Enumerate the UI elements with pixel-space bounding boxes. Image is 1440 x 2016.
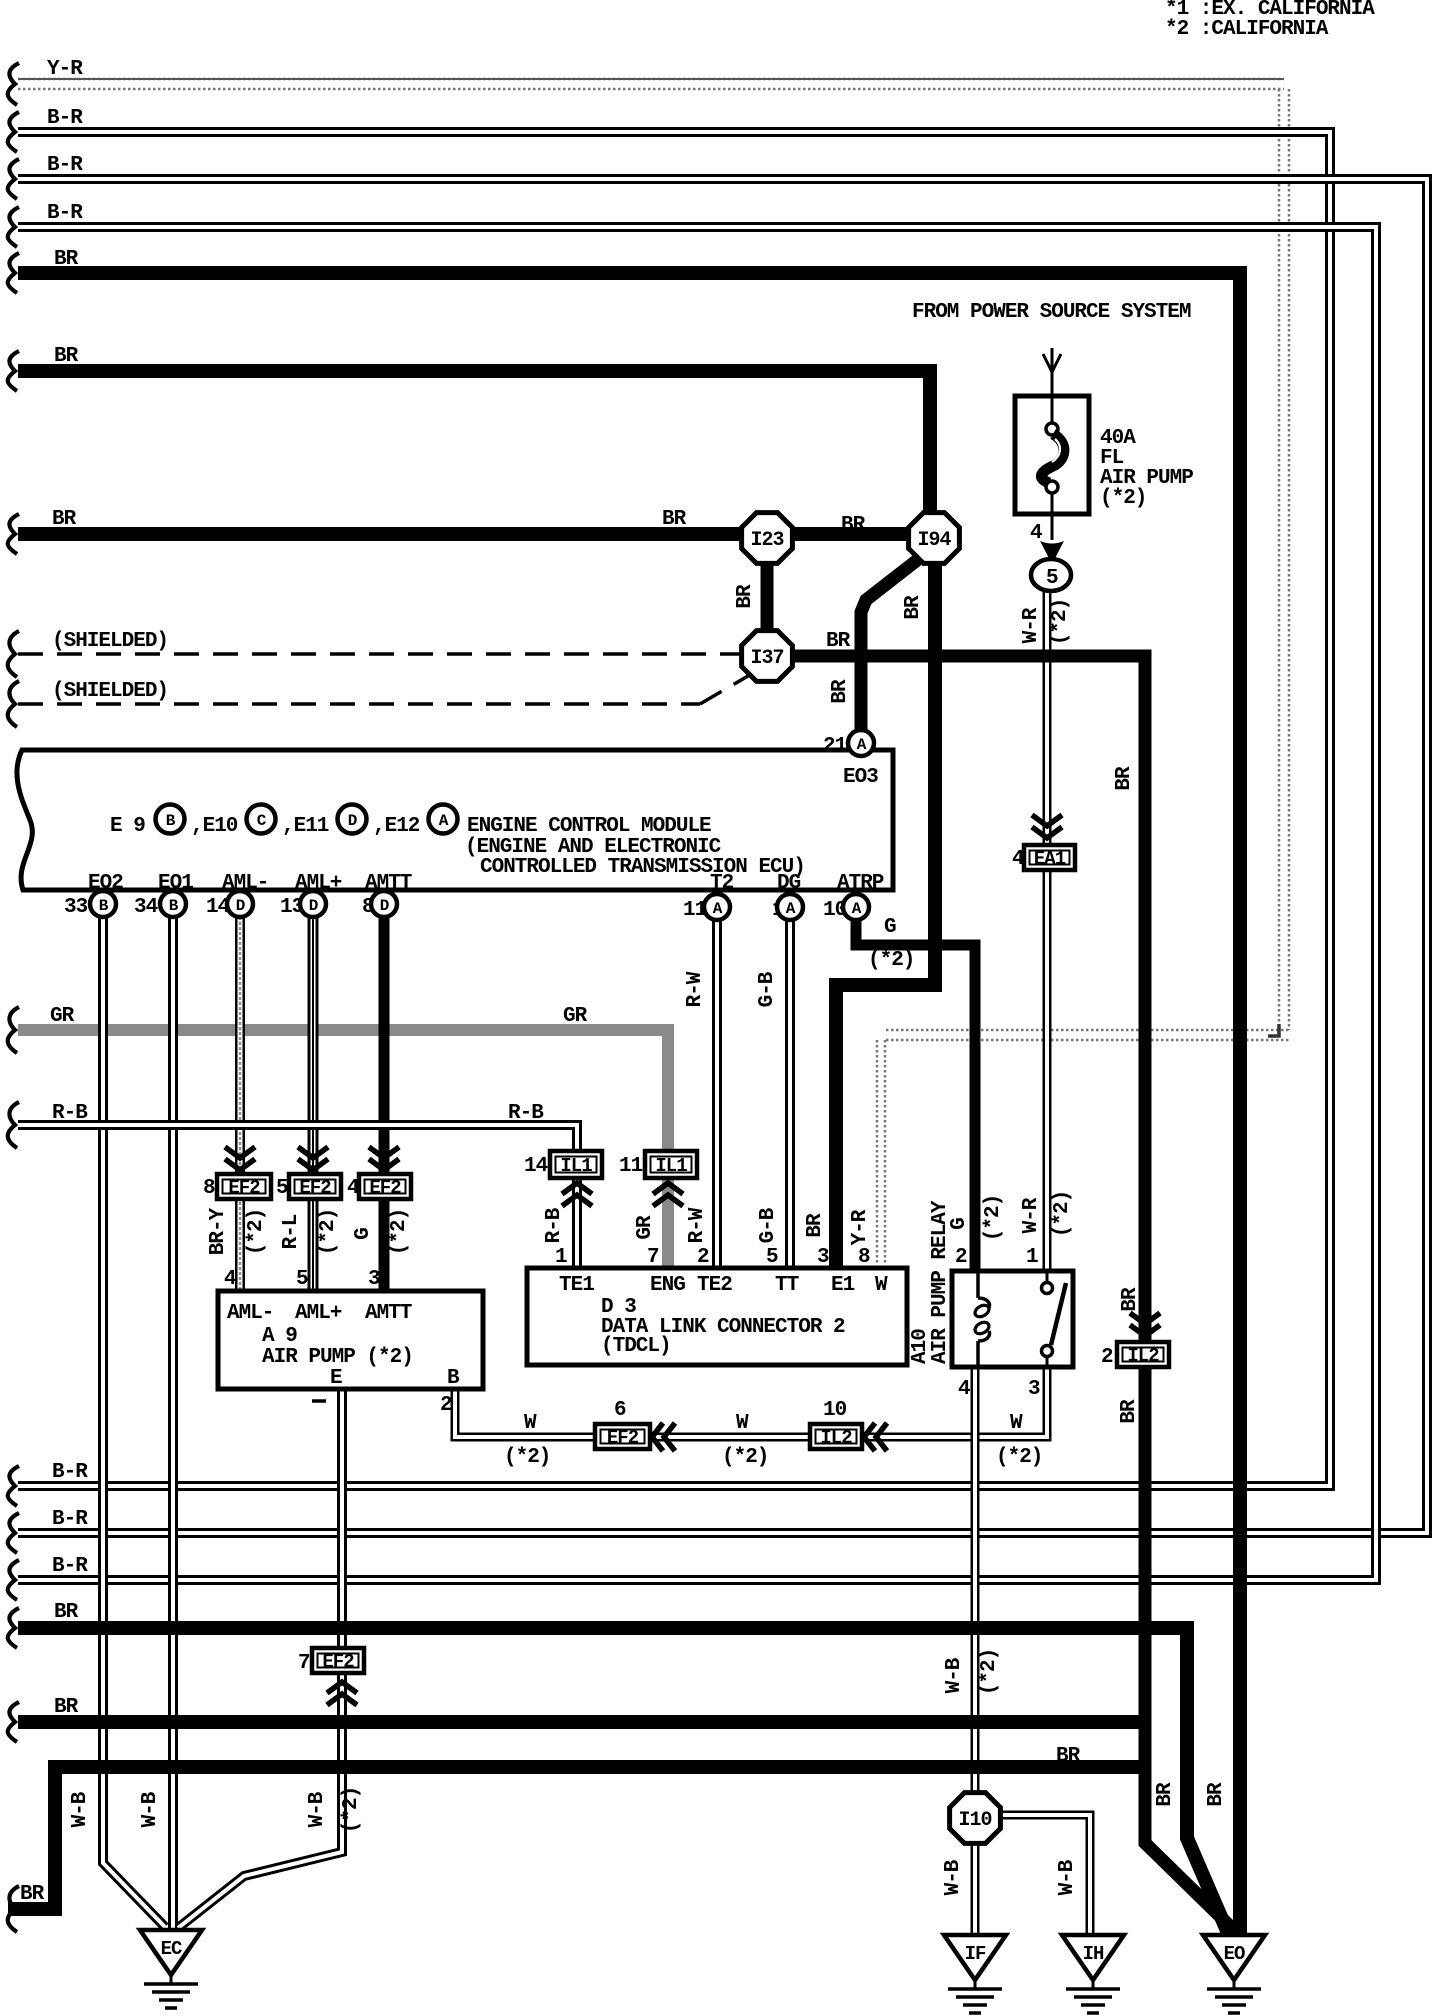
- svg-text:Y-R: Y-R: [849, 1209, 872, 1245]
- svg-text:(*2): (*2): [245, 1209, 268, 1255]
- svg-text:FROM POWER SOURCE SYSTEM: FROM POWER SOURCE SYSTEM: [912, 301, 1191, 324]
- svg-text:10: 10: [823, 1399, 847, 1422]
- svg-text:(SHIELDED): (SHIELDED): [52, 630, 168, 653]
- wire BR bottom-left L (y=1909) up to bus y=1767 joining IL2 vertical: [8, 1745, 1145, 1909]
- svg-text:(*2): (*2): [1100, 487, 1146, 510]
- svg-text:W-B: W-B: [942, 1859, 965, 1895]
- svg-text:R-B: R-B: [508, 1102, 544, 1125]
- svg-text:ATRP: ATRP: [837, 872, 884, 895]
- svg-text:6: 6: [614, 1399, 626, 1422]
- svg-text:*2 :CALIFORNIA: *2 :CALIFORNIA: [1165, 18, 1329, 41]
- ground EC: [140, 1930, 202, 2008]
- svg-text:EA1: EA1: [1034, 848, 1066, 870]
- svg-text:A: A: [852, 900, 862, 918]
- svg-text:B-R: B-R: [47, 107, 83, 130]
- svg-text:W-B: W-B: [943, 1657, 966, 1693]
- svg-text:BR: BR: [829, 679, 852, 704]
- svg-text:,E12: ,E12: [373, 815, 420, 838]
- svg-text:GR: GR: [50, 1005, 75, 1028]
- svg-text:3: 3: [1028, 1378, 1040, 1401]
- svg-text:B-R: B-R: [52, 1461, 88, 1484]
- svg-text:EO3: EO3: [843, 766, 878, 789]
- label FROM POWER SOURCE SYSTEM: [912, 301, 1191, 324]
- svg-text:(*2): (*2): [317, 1209, 340, 1255]
- wire BR from junction I94 straight down then jog left to D3 pin E1: [804, 545, 935, 1269]
- svg-text:IH: IH: [1083, 1943, 1104, 1965]
- wire B-R bus 3 (top y=227, right x=1376, bottom y=1580): [18, 202, 1376, 1580]
- svg-text:(*2): (*2): [982, 1195, 1005, 1241]
- svg-text:BR: BR: [1205, 1782, 1228, 1807]
- svg-text:Y-R: Y-R: [47, 58, 83, 81]
- ECU pin 13(D): [280, 891, 326, 919]
- svg-text:4: 4: [224, 1268, 236, 1291]
- svg-text:BR: BR: [1118, 1399, 1141, 1424]
- svg-text:ENG: ENG: [650, 1274, 685, 1297]
- wire Y-R bus (dotted, top row to D3 pin W): [18, 58, 1289, 1265]
- connector IL2 pin 10 with arrow: [810, 1399, 887, 1451]
- svg-text:(*2): (*2): [340, 1787, 363, 1833]
- svg-text:B: B: [447, 1367, 460, 1390]
- svg-text:R-B: R-B: [543, 1207, 566, 1243]
- D3 pin 8 Y-R label: [849, 1209, 872, 1269]
- svg-text:DG: DG: [777, 872, 801, 895]
- svg-text:R-W: R-W: [686, 1207, 709, 1243]
- ECU pin 8(D): [362, 891, 397, 919]
- svg-text:C: C: [257, 812, 267, 830]
- svg-text:D: D: [380, 897, 389, 915]
- svg-text:BR: BR: [1056, 1745, 1081, 1768]
- svg-text:,E10: ,E10: [191, 815, 238, 838]
- svg-text:IL1: IL1: [655, 1155, 687, 1177]
- svg-text:(*2): (*2): [996, 1446, 1042, 1469]
- svg-text:CONTROLLED TRANSMISSION ECU): CONTROLLED TRANSMISSION ECU): [480, 856, 805, 879]
- arrow from power source into fuse: [1043, 348, 1061, 398]
- wire W-B (*2) from air pump pin E down through EF2(7) to ground EC: [178, 1389, 363, 1928]
- fuse 40A FL AIR PUMP (*2): [1015, 396, 1193, 540]
- svg-text:D: D: [309, 897, 318, 915]
- wire W-B from junction I10 down to ground IF: [942, 1838, 975, 1935]
- svg-text:IF: IF: [965, 1943, 986, 1965]
- wire B-R bus 2 (top y=179, right x=1427, bottom y=1533): [18, 154, 1427, 1533]
- svg-text:BR: BR: [841, 514, 866, 537]
- svg-text:BR: BR: [662, 508, 687, 531]
- ECU pin 11(A): [683, 894, 730, 922]
- svg-text:BR: BR: [826, 630, 851, 653]
- arrow into EA1 pin 4: [1032, 815, 1062, 838]
- connector D3 DATA LINK CONNECTOR 2 (TDCL): [527, 1268, 907, 1365]
- svg-text:G-B: G-B: [757, 1207, 780, 1243]
- svg-text:BR: BR: [734, 584, 757, 609]
- svg-text:I23: I23: [750, 529, 783, 552]
- ECU pin 1(A): [772, 894, 803, 922]
- junction I23: [742, 513, 793, 564]
- svg-text:21: 21: [823, 735, 847, 758]
- svg-text:BR: BR: [20, 1883, 45, 1906]
- svg-text:BR: BR: [1154, 1782, 1177, 1807]
- junction I37: [742, 631, 793, 682]
- svg-text:GR: GR: [634, 1215, 657, 1240]
- svg-text:TE1: TE1: [559, 1274, 594, 1297]
- wire W-B from ECU pin 34(B) EO1 down to ground EC: [139, 917, 173, 1930]
- wire BR bus thick (y=371) down into junction I94: [18, 345, 930, 620]
- svg-text:A: A: [713, 900, 723, 918]
- connector 5 (oval): [1031, 559, 1071, 591]
- svg-text:B-R: B-R: [47, 202, 83, 225]
- svg-text:BR: BR: [54, 1696, 79, 1719]
- svg-text:(SHIELDED): (SHIELDED): [52, 680, 168, 703]
- svg-text:W-R: W-R: [1020, 1197, 1043, 1233]
- svg-text:(*2): (*2): [1049, 599, 1072, 645]
- svg-text:W: W: [1010, 1412, 1023, 1435]
- wire W (*2) chain from air pump pin B via EF2(6) and IL2(10) to relay pin 3: [440, 1367, 1047, 1469]
- junction I10: [950, 1793, 1001, 1844]
- svg-text:AIR PUMP RELAY: AIR PUMP RELAY: [929, 1200, 952, 1364]
- svg-text:D: D: [348, 812, 357, 830]
- svg-text:B-R: B-R: [52, 1508, 88, 1531]
- svg-text:EF2: EF2: [228, 1177, 260, 1199]
- svg-text:AIR PUMP (*2): AIR PUMP (*2): [262, 1346, 413, 1369]
- svg-text:5: 5: [296, 1268, 308, 1291]
- wire W-B (*2) from relay pin 4 down to junction I10: [943, 1367, 1001, 1800]
- svg-text:EF2: EF2: [607, 1427, 639, 1449]
- svg-text:14: 14: [524, 1155, 548, 1178]
- svg-text:W-B: W-B: [69, 1791, 92, 1827]
- connector IL1 pin 11: [619, 1151, 697, 1178]
- wire shielded line 2 (dashed, diagonal into I37): [18, 676, 748, 704]
- svg-text:E: E: [330, 1367, 342, 1390]
- wire W-B from junction I10 right and down to ground IH: [997, 1815, 1090, 1935]
- svg-text:I94: I94: [917, 529, 951, 552]
- svg-text:BR: BR: [1113, 766, 1136, 791]
- svg-text:3: 3: [368, 1268, 380, 1291]
- ECU pin 14(D): [206, 891, 253, 919]
- wire G (*2) from ECU pin 8(D) AMTT to connector EF2 pin 4 / air pump pin 3: [352, 917, 411, 1291]
- svg-text:BR: BR: [902, 595, 925, 620]
- svg-text:TE2: TE2: [697, 1274, 732, 1297]
- svg-text:(*2): (*2): [722, 1446, 768, 1469]
- svg-text:(*2): (*2): [1051, 1191, 1074, 1237]
- svg-text:W: W: [524, 1412, 537, 1435]
- svg-text:W: W: [875, 1274, 888, 1297]
- svg-text:BR: BR: [1119, 1287, 1142, 1312]
- D3 pin 7 GR label: [647, 1246, 659, 1269]
- svg-text:EF2: EF2: [299, 1177, 331, 1199]
- svg-text:EF2: EF2: [369, 1177, 401, 1199]
- svg-text:R-B: R-B: [52, 1102, 88, 1125]
- wire G (*2) thick from ECU pin 10(A) ATRP down to relay pin 2: [856, 916, 1005, 1271]
- wire G-B from ECU pin 1(A) DG down to D3 pin TT: [756, 917, 790, 1269]
- svg-text:2: 2: [1101, 1346, 1113, 1369]
- svg-text:(*2): (*2): [504, 1446, 550, 1469]
- wire R-W from ECU pin 11(A) T2 down to D3 pin TE2: [684, 917, 717, 1269]
- svg-text:B-R: B-R: [47, 154, 83, 177]
- legend *1 EX. CALIFORNIA / *2 CALIFORNIA: [1165, 0, 1375, 41]
- op-amp U1 ECU box ENGINE CONTROL MODULE: [17, 750, 893, 895]
- svg-text:BR: BR: [804, 1213, 827, 1238]
- connector EF2 pin 6 with arrow: [595, 1399, 675, 1451]
- svg-text:E 9: E 9: [110, 815, 145, 838]
- svg-text:7: 7: [298, 1652, 310, 1675]
- svg-text:BR: BR: [54, 345, 79, 368]
- svg-text:,E11: ,E11: [282, 815, 329, 838]
- svg-text:4: 4: [1030, 522, 1042, 545]
- ECU pin 34(B): [134, 891, 186, 919]
- svg-text:4: 4: [958, 1378, 970, 1401]
- svg-text:8: 8: [858, 1246, 870, 1269]
- svg-text:IL1: IL1: [560, 1155, 592, 1177]
- svg-text:EC: EC: [161, 1938, 182, 1960]
- wire B-R bus 1 (top y=132, right x=1330, bottom y=1486): [18, 107, 1330, 1486]
- wire GR (gray) from left bus down to connector IL1 pin 7: [18, 1005, 668, 1270]
- connector IL2 pin 2: [1101, 1342, 1169, 1369]
- svg-text:2: 2: [440, 1394, 452, 1417]
- svg-text:D: D: [236, 897, 245, 915]
- connector EA1 pin 4: [1012, 845, 1075, 871]
- svg-text:TT: TT: [775, 1274, 799, 1297]
- svg-text:R-W: R-W: [684, 971, 707, 1007]
- pin 4 and arrow into connector 5: [1030, 522, 1064, 564]
- svg-text:A: A: [439, 812, 449, 830]
- ECU pin 10(A): [823, 894, 869, 922]
- wire BR bottom bus thick (y=1722) joining IL2 vertical: [18, 1696, 1145, 1722]
- svg-text:IL2: IL2: [1127, 1345, 1159, 1367]
- connector EF2 pin 4: [347, 1174, 411, 1200]
- wire W-R (*2) from connector 5 down through EA1 to relay pin 1: [1020, 589, 1074, 1271]
- svg-text:IL2: IL2: [820, 1427, 852, 1449]
- wire shielded line 1 (dashed) into I37: [18, 630, 740, 654]
- relay pin 3 label: [1028, 1378, 1040, 1401]
- arrow into EF2 pin 5: [298, 1147, 328, 1170]
- svg-text:8: 8: [203, 1177, 215, 1200]
- svg-text:W-B: W-B: [306, 1791, 329, 1827]
- svg-text:I37: I37: [750, 647, 783, 670]
- ground IH: [1062, 1935, 1124, 2013]
- svg-text:ENGINE CONTROL MODULE: ENGINE CONTROL MODULE: [467, 815, 711, 838]
- svg-text:B: B: [169, 897, 179, 915]
- svg-text:A: A: [857, 736, 867, 754]
- svg-text:A 9: A 9: [262, 1325, 297, 1348]
- svg-text:(*2): (*2): [868, 949, 914, 972]
- ground EO: [1203, 1935, 1265, 2013]
- ground IF: [944, 1935, 1006, 2013]
- relay A10 AIR PUMP RELAY: [909, 1200, 1073, 1367]
- left continuation braces: [8, 63, 19, 1932]
- svg-text:34: 34: [134, 896, 158, 919]
- svg-text:T2: T2: [710, 872, 734, 895]
- svg-text:5: 5: [276, 1177, 288, 1200]
- ECU pin 33(B): [64, 891, 116, 919]
- connector EF2 pin 8: [203, 1174, 271, 1200]
- wire BR bus thick (y=273) down right side x=1240 to ground EO: [18, 248, 1240, 1935]
- wire BR bottom bus thick (y=1628) right then down to ground EO: [18, 1601, 1228, 1933]
- svg-text:BR: BR: [54, 1601, 79, 1624]
- svg-text:2: 2: [955, 1246, 967, 1269]
- svg-text:B: B: [99, 897, 109, 915]
- svg-text:W-R: W-R: [1020, 607, 1043, 643]
- svg-text:B: B: [166, 812, 176, 830]
- svg-text:W-B: W-B: [1056, 1859, 1079, 1895]
- svg-text:A: A: [786, 900, 796, 918]
- arrow into IL2 pin 2: [1130, 1313, 1160, 1336]
- wire BR-Y (*2) from ECU pin 14(D) AML- to connector EF2 pin 8 / air pump pin 4: [207, 917, 268, 1291]
- svg-text:AML-: AML-: [227, 1302, 273, 1325]
- svg-text:33: 33: [64, 896, 88, 919]
- svg-text:W: W: [736, 1412, 749, 1435]
- wire BR from junction I94 diagonal down to ECU pin 21(A): [829, 541, 934, 731]
- connector EF2 pin 5: [276, 1174, 341, 1200]
- wire BR bus thick (y=534) through junction I23 to junction I94: [18, 508, 934, 537]
- svg-text:1: 1: [1026, 1246, 1038, 1269]
- wire R-L (*2) from ECU pin 13(D) AML+ to connector EF2 pin 5 / air pump pin 5: [280, 917, 340, 1291]
- connector EF2 pin 7 with arrow: [298, 1648, 364, 1705]
- connector IL1 pin 14: [524, 1151, 602, 1178]
- wire BR from junction I23 down to junction I37: [734, 534, 767, 656]
- svg-text:I10: I10: [958, 1809, 991, 1832]
- svg-text:BR: BR: [52, 508, 77, 531]
- arrow into IL1 pin 11: [653, 1183, 683, 1206]
- svg-text:BR: BR: [54, 248, 79, 271]
- svg-text:E1: E1: [831, 1274, 855, 1297]
- wire W-B from ECU pin 33(B) EO2 down to ground EC: [69, 917, 165, 1927]
- svg-text:W-B: W-B: [139, 1791, 162, 1827]
- ECU pin 21(A) on top edge: [823, 730, 874, 758]
- arrow into EF2 pin 8: [225, 1147, 255, 1170]
- svg-text:5: 5: [1046, 567, 1058, 590]
- svg-text:GR: GR: [563, 1005, 588, 1028]
- svg-text:B-R: B-R: [52, 1555, 88, 1578]
- svg-text:BR-Y: BR-Y: [207, 1207, 230, 1255]
- wire R-B from left bus to connector IL1 pin 14 / D3 pin TE1: [18, 1102, 577, 1269]
- transistor A9 AIR PUMP box: [218, 1291, 483, 1390]
- svg-text:(TDCL): (TDCL): [601, 1335, 671, 1358]
- svg-text:G-B: G-B: [756, 971, 779, 1007]
- svg-text:R-L: R-L: [280, 1214, 303, 1249]
- svg-text:7: 7: [647, 1246, 659, 1269]
- svg-text:AML+: AML+: [295, 1302, 342, 1325]
- arrow into IL1 pin 14: [562, 1183, 592, 1206]
- arrow into EF2 pin 4: [369, 1147, 399, 1170]
- svg-text:EO: EO: [1224, 1943, 1245, 1965]
- junction I94: [909, 513, 960, 564]
- svg-text:AMTT: AMTT: [365, 1302, 412, 1325]
- svg-text:11: 11: [619, 1155, 643, 1178]
- svg-text:G: G: [352, 1228, 375, 1240]
- svg-text:(*2): (*2): [978, 1649, 1001, 1695]
- wire BR from junction I37 right then down to connector IL2 pin 2 and ground EO: [767, 630, 1237, 1933]
- svg-text:EF2: EF2: [322, 1651, 354, 1673]
- svg-text:G: G: [884, 916, 896, 939]
- svg-text:(*2): (*2): [388, 1209, 411, 1255]
